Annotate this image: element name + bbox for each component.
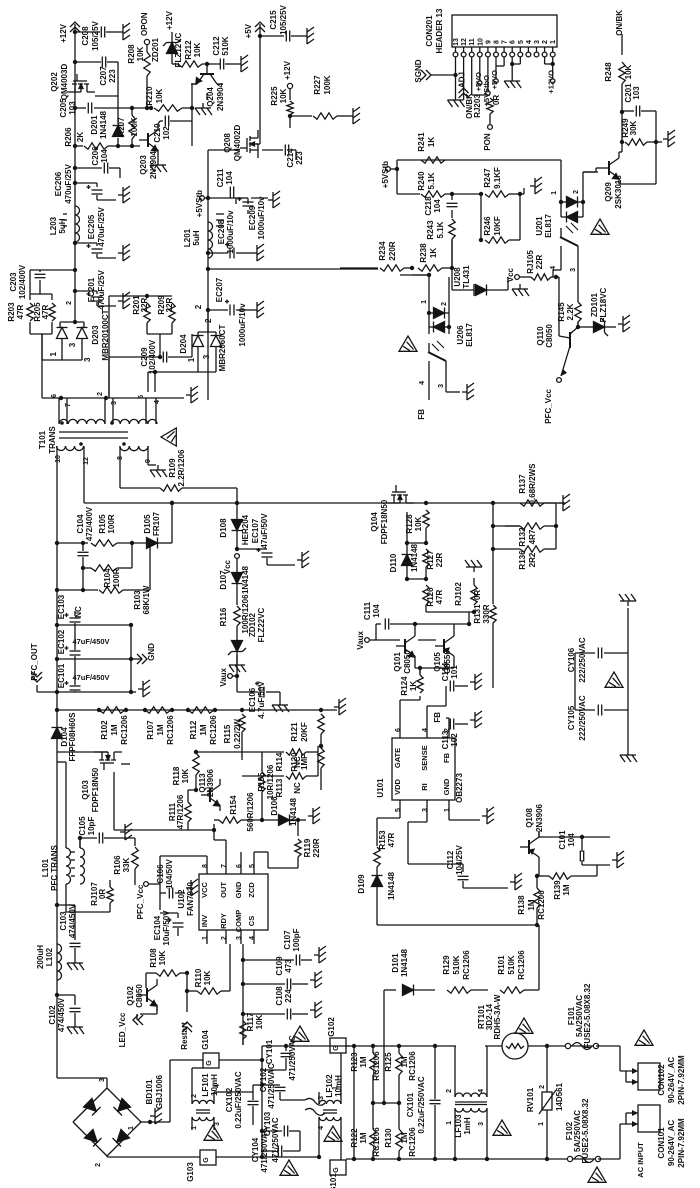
svg-text:7: 7 [502, 40, 509, 44]
svg-text:1M: 1M [562, 884, 571, 895]
svg-text:EC208: EC208 [217, 219, 226, 244]
svg-text:C108: C108 [275, 986, 284, 1006]
svg-text:D101: D101 [391, 953, 400, 973]
svg-text:R132: R132 [518, 527, 527, 547]
svg-text:68K/1W: 68K/1W [142, 585, 151, 614]
svg-text:R124: R124 [400, 676, 409, 696]
svg-text:R123: R123 [350, 1052, 359, 1072]
svg-text:NC: NC [293, 782, 302, 794]
svg-text:2: 2 [221, 936, 228, 940]
svg-text:+12V: +12V [283, 60, 292, 80]
svg-text:1: 1 [191, 1126, 198, 1130]
svg-text:GND: GND [147, 643, 156, 661]
svg-text:C102: C102 [48, 1005, 57, 1025]
svg-text:D203: D203 [91, 325, 100, 345]
svg-text:C218: C218 [424, 196, 433, 216]
svg-text:3: 3 [438, 384, 445, 388]
svg-text:C211: C211 [216, 168, 225, 187]
svg-text:1: 1 [202, 936, 209, 940]
svg-text:RC1206: RC1206 [372, 1051, 381, 1081]
svg-text:R153: R153 [378, 830, 387, 850]
svg-text:510K: 510K [452, 955, 461, 974]
svg-text:3: 3 [570, 268, 577, 272]
svg-text:8: 8 [202, 864, 209, 868]
svg-text:10K: 10K [203, 970, 212, 985]
svg-text:C114: C114 [441, 662, 450, 681]
svg-text:2K: 2K [76, 132, 85, 142]
svg-text:LF101: LF101 [201, 1073, 210, 1097]
svg-text:R115: R115 [223, 724, 232, 743]
svg-text:R129: R129 [442, 955, 451, 975]
svg-text:47R/1206: 47R/1206 [176, 794, 185, 829]
svg-text:R125: R125 [384, 1052, 393, 1072]
svg-text:10K: 10K [158, 950, 167, 965]
svg-text:10: 10 [477, 38, 484, 46]
svg-text:10K: 10K [136, 46, 145, 61]
svg-text:HER204: HER204 [241, 514, 250, 545]
svg-text:0R: 0R [492, 95, 501, 105]
svg-text:1mH: 1mH [463, 1117, 472, 1135]
svg-text:3: 3 [422, 808, 429, 812]
svg-text:3: 3 [202, 354, 211, 359]
svg-text:10: 10 [55, 455, 62, 463]
svg-text:101: 101 [450, 665, 459, 679]
svg-text:R203: R203 [7, 302, 16, 322]
svg-text:RDH5-3A-W: RDH5-3A-W [493, 994, 502, 1039]
svg-text:RDY: RDY [219, 913, 228, 929]
svg-text:T101: T101 [38, 430, 47, 449]
svg-text:47uF/50V: 47uF/50V [260, 513, 269, 549]
svg-text:22R: 22R [535, 254, 544, 269]
svg-text:10K: 10K [181, 768, 190, 783]
svg-text:220R: 220R [388, 241, 397, 260]
svg-text:C203: C203 [9, 272, 18, 292]
svg-text:1: 1 [128, 1126, 135, 1130]
svg-text:2SK3018: 2SK3018 [614, 175, 623, 209]
svg-text:470uF/25V: 470uF/25V [97, 207, 106, 247]
svg-text:471/250VAC: 471/250VAC [260, 1127, 269, 1172]
svg-text:D110: D110 [389, 553, 398, 572]
svg-text:EC101: EC101 [57, 663, 66, 688]
svg-text:R155: R155 [257, 772, 266, 792]
svg-text:R102: R102 [100, 720, 109, 740]
svg-text:D106: D106 [270, 796, 279, 816]
svg-text:8: 8 [494, 40, 501, 44]
svg-text:1: 1 [49, 351, 58, 356]
svg-text:SGND: SGND [414, 59, 423, 82]
svg-text:1: 1 [446, 1121, 453, 1125]
svg-text:CY104: CY104 [251, 1137, 260, 1162]
svg-text:3: 3 [99, 1078, 106, 1082]
svg-text:5.1K: 5.1K [436, 221, 445, 238]
svg-text:2R2: 2R2 [528, 552, 537, 567]
svg-text:FFPF08H60S: FFPF08H60S [68, 712, 77, 762]
svg-text:30K: 30K [629, 120, 638, 135]
svg-text:RC1206: RC1206 [408, 1051, 417, 1081]
svg-text:6: 6 [395, 728, 402, 732]
svg-text:D204: D204 [179, 334, 188, 354]
svg-text:560R/1206: 560R/1206 [246, 792, 255, 832]
svg-text:R154: R154 [229, 795, 238, 815]
svg-text:AC INPUT: AC INPUT [636, 1142, 645, 1178]
svg-text:22R: 22R [165, 297, 174, 312]
svg-text:VDD: VDD [393, 779, 402, 795]
svg-text:C111: C111 [363, 601, 372, 620]
svg-text:470uF/25V: 470uF/25V [97, 270, 106, 310]
svg-text:1: 1 [538, 1122, 545, 1126]
svg-text:LF103: LF103 [454, 1114, 463, 1138]
svg-text:224: 224 [284, 989, 293, 1003]
svg-text:474/450V: 474/450V [68, 903, 77, 938]
svg-text:C109: C109 [275, 956, 284, 976]
svg-text:1K: 1K [429, 248, 438, 258]
svg-text:EC206: EC206 [54, 171, 63, 196]
svg-text:L201: L201 [183, 228, 192, 247]
svg-text:HEADER 13: HEADER 13 [435, 8, 444, 53]
svg-text:FAN7930: FAN7930 [186, 882, 195, 916]
svg-text:4: 4 [422, 728, 429, 732]
svg-text:102: 102 [162, 126, 171, 140]
svg-text:4: 4 [526, 40, 533, 44]
svg-text:Q202: Q202 [50, 72, 59, 92]
svg-text:2: 2 [446, 1089, 453, 1093]
svg-text:4.7uF/50V: 4.7uF/50V [257, 681, 266, 719]
svg-text:R117: R117 [246, 1012, 255, 1031]
svg-text:47R: 47R [435, 589, 444, 604]
svg-text:1M: 1M [359, 1056, 368, 1067]
svg-text:Vcc: Vcc [506, 267, 515, 282]
svg-text:R145: R145 [557, 302, 566, 322]
svg-text:0.22uF/250VAC: 0.22uF/250VAC [234, 1071, 243, 1128]
svg-text:L203: L203 [49, 216, 58, 235]
svg-text:U102: U102 [177, 889, 186, 909]
svg-text:R238: R238 [419, 243, 428, 263]
svg-text:C8050: C8050 [403, 650, 412, 674]
svg-text:R130: R130 [384, 1128, 393, 1148]
svg-text:G: G [333, 1167, 340, 1173]
svg-text:Restart: Restart [180, 1022, 189, 1050]
svg-text:TRANS: TRANS [48, 426, 57, 454]
svg-text:3: 3 [534, 40, 541, 44]
svg-text:OB2273: OB2273 [455, 773, 464, 803]
svg-text:EL817: EL817 [465, 323, 474, 347]
svg-text:Vaux: Vaux [219, 667, 228, 686]
svg-text:G: G [206, 1060, 213, 1066]
svg-text:100pF: 100pF [292, 928, 301, 951]
svg-text:+5VO: +5VO [490, 70, 499, 90]
svg-text:22R: 22R [435, 552, 444, 567]
svg-text:ZD201: ZD201 [151, 37, 160, 62]
svg-text:0.22uF/250VAC: 0.22uF/250VAC [417, 1076, 426, 1133]
svg-text:CX101: CX101 [406, 1092, 415, 1117]
svg-text:3: 3 [478, 1122, 485, 1126]
svg-text:U101: U101 [376, 778, 385, 798]
svg-text:RC1206: RC1206 [462, 950, 471, 980]
svg-text:1: 1 [551, 191, 558, 195]
svg-text:C8050: C8050 [135, 984, 144, 1008]
svg-text:R227: R227 [313, 75, 322, 95]
svg-text:473: 473 [284, 959, 293, 973]
svg-text:RC1206: RC1206 [372, 1127, 381, 1157]
svg-text:C206: C206 [91, 146, 100, 166]
svg-text:90-264V_AC: 90-264V_AC [667, 1057, 676, 1103]
svg-text:2: 2 [194, 304, 203, 309]
svg-text:GND: GND [234, 881, 243, 898]
svg-text:RC1206: RC1206 [537, 890, 546, 920]
svg-text:47uF/450V: 47uF/450V [72, 637, 109, 646]
svg-text:C210: C210 [153, 123, 162, 143]
svg-text:4: 4 [318, 1126, 325, 1130]
svg-text:10K: 10K [255, 1014, 264, 1029]
svg-text:+12V: +12V [59, 23, 68, 43]
svg-text:5: 5 [249, 864, 256, 868]
svg-text:10R/1206: 10R/1206 [266, 764, 275, 799]
svg-text:LF102: LF102 [325, 1074, 334, 1098]
svg-text:1M: 1M [359, 1132, 368, 1143]
svg-text:C214: C214 [286, 148, 295, 168]
svg-text:0R: 0R [473, 590, 482, 600]
svg-text:FDPF18N50: FDPF18N50 [91, 767, 100, 812]
svg-text:100K: 100K [323, 75, 332, 94]
svg-text:12: 12 [461, 38, 468, 46]
svg-text:R234: R234 [378, 241, 387, 261]
svg-text:1N4148: 1N4148 [410, 543, 419, 572]
svg-text:QM4002D: QM4002D [233, 125, 242, 162]
svg-text:6: 6 [510, 40, 517, 44]
svg-text:R105: R105 [98, 514, 107, 534]
svg-text:ON/BK: ON/BK [615, 10, 624, 36]
svg-text:G: G [203, 1157, 210, 1163]
svg-text:2.2R/1206: 2.2R/1206 [177, 449, 186, 486]
svg-text:472/400V: 472/400V [85, 506, 94, 541]
svg-text:R248: R248 [604, 62, 613, 82]
svg-text:1: 1 [187, 357, 196, 362]
svg-text:223: 223 [108, 69, 117, 83]
svg-text:100R: 100R [112, 568, 121, 587]
svg-text:105/25V: 105/25V [91, 20, 100, 50]
svg-text:EC107: EC107 [251, 518, 260, 543]
svg-text:FB: FB [417, 409, 426, 420]
svg-text:3: 3 [214, 1122, 221, 1126]
svg-text:3: 3 [68, 342, 77, 347]
svg-text:470uF/25V: 470uF/25V [64, 164, 73, 204]
svg-text:7: 7 [65, 403, 72, 407]
svg-text:GBJ1006: GBJ1006 [155, 1074, 164, 1109]
svg-text:6: 6 [51, 394, 58, 398]
svg-text:G102: G102 [327, 1017, 336, 1037]
svg-text:R136: R136 [518, 550, 527, 570]
svg-text:R103: R103 [133, 590, 142, 610]
svg-text:R107: R107 [146, 720, 155, 740]
svg-text:330R: 330R [482, 604, 491, 623]
svg-text:1N4148: 1N4148 [241, 565, 250, 594]
svg-text:2: 2 [66, 301, 73, 305]
svg-text:R113: R113 [275, 778, 284, 797]
svg-text:R108: R108 [149, 948, 158, 968]
svg-text:CS: CS [247, 916, 256, 926]
svg-text:D201: D201 [90, 115, 99, 135]
svg-text:1000uF/10v: 1000uF/10v [238, 303, 247, 347]
svg-text:11: 11 [469, 38, 476, 46]
svg-text:R109: R109 [168, 458, 177, 478]
svg-text:D109: D109 [357, 874, 366, 894]
svg-text:RC1206: RC1206 [166, 715, 175, 745]
svg-text:10K: 10K [155, 88, 164, 103]
svg-text:R127: R127 [426, 550, 435, 570]
svg-text:10K: 10K [279, 88, 288, 103]
svg-text:223: 223 [295, 151, 304, 165]
svg-text:510K: 510K [221, 36, 230, 55]
svg-text:RV101: RV101 [526, 1087, 535, 1112]
svg-text:222/250VAC: 222/250VAC [578, 695, 587, 740]
svg-text:R225: R225 [270, 86, 279, 106]
svg-text:1: 1 [332, 1086, 339, 1090]
svg-text:2: 2 [95, 1163, 102, 1167]
svg-text:FLZ12VC: FLZ12VC [174, 32, 183, 67]
svg-text:100R: 100R [107, 514, 116, 533]
svg-text:EC106: EC106 [248, 687, 257, 712]
svg-text:1K: 1K [409, 681, 418, 691]
svg-text:104/50V: 104/50V [165, 858, 174, 888]
svg-text:471/250VAC: 471/250VAC [288, 1035, 297, 1080]
svg-text:47R: 47R [16, 304, 25, 319]
svg-text:2: 2 [97, 392, 104, 396]
svg-text:4: 4 [419, 381, 426, 385]
svg-text:4R7: 4R7 [528, 529, 537, 544]
svg-text:NC: NC [293, 756, 302, 768]
svg-text:1: 1 [550, 40, 557, 44]
svg-text:Q110: Q110 [536, 326, 545, 346]
svg-text:R118: R118 [172, 766, 181, 785]
svg-text:RC1206: RC1206 [408, 1127, 417, 1157]
svg-text:R104: R104 [103, 568, 112, 588]
svg-text:2.2K: 2.2K [566, 303, 575, 320]
svg-text:D108: D108 [219, 518, 228, 538]
svg-text:Q203: Q203 [139, 155, 148, 175]
svg-text:CON101: CON101 [657, 1127, 666, 1159]
svg-text:R116: R116 [219, 607, 228, 626]
svg-text:Q208: Q208 [223, 133, 232, 153]
svg-text:1M: 1M [527, 899, 536, 910]
svg-text:6: 6 [236, 864, 243, 868]
svg-text:2N3904: 2N3904 [216, 82, 225, 111]
svg-text:EC209: EC209 [248, 205, 257, 230]
svg-text:EC201: EC201 [87, 277, 96, 302]
svg-text:22R: 22R [140, 297, 149, 312]
svg-text:3: 3 [236, 936, 243, 940]
svg-text:2: 2 [539, 1085, 546, 1089]
svg-text:10K: 10K [414, 516, 423, 531]
svg-text:47R: 47R [41, 304, 50, 319]
svg-text:102: 102 [450, 733, 459, 747]
svg-text:200uH: 200uH [36, 945, 45, 969]
svg-text:2N3906: 2N3906 [535, 803, 544, 832]
svg-text:5: 5 [518, 40, 525, 44]
svg-text:OUT: OUT [219, 882, 228, 898]
svg-text:104: 104 [567, 833, 576, 847]
svg-text:Q209: Q209 [604, 182, 613, 202]
svg-text:0R: 0R [98, 889, 107, 899]
svg-text:TL431: TL431 [462, 265, 471, 289]
svg-text:RC1206: RC1206 [120, 715, 129, 745]
svg-text:103: 103 [68, 101, 77, 115]
svg-text:1N4148: 1N4148 [99, 110, 108, 139]
svg-text:C212: C212 [212, 36, 221, 56]
svg-text:4: 4 [550, 266, 557, 270]
svg-text:EC104: EC104 [153, 915, 162, 940]
svg-text:Q103: Q103 [81, 780, 90, 800]
svg-text:13: 13 [453, 38, 460, 46]
svg-text:R243: R243 [426, 220, 435, 240]
svg-text:1000uF/10v: 1000uF/10v [226, 210, 235, 254]
svg-text:0.68R/2WS: 0.68R/2WS [528, 463, 537, 505]
svg-text:PFC_Vcc: PFC_Vcc [136, 884, 145, 919]
svg-text:RJ203: RJ203 [473, 94, 482, 118]
svg-text:C215: C215 [269, 10, 278, 30]
svg-text:C105: C105 [78, 816, 87, 836]
svg-text:3: 3 [318, 1096, 325, 1100]
svg-text:CY101: CY101 [265, 1039, 274, 1064]
svg-text:2: 2 [191, 1094, 198, 1098]
svg-text:+12VO: +12VO [547, 70, 556, 94]
svg-text:9: 9 [485, 40, 492, 44]
svg-text:4: 4 [154, 400, 161, 404]
svg-text:D105: D105 [143, 514, 152, 534]
svg-text:QM4003D: QM4003D [60, 64, 69, 101]
svg-text:R121: R121 [290, 722, 299, 742]
svg-text:EC207: EC207 [215, 277, 224, 302]
svg-text:R206: R206 [64, 127, 73, 147]
svg-text:1K: 1K [427, 137, 436, 147]
svg-text:PFC TRANS: PFC TRANS [50, 844, 59, 890]
svg-text:Q102: Q102 [126, 986, 135, 1006]
svg-text:CON102: CON102 [657, 1064, 666, 1096]
svg-text:C112: C112 [446, 850, 455, 869]
svg-text:5: 5 [395, 808, 402, 812]
svg-text:LED_Vcc: LED_Vcc [118, 1012, 127, 1047]
svg-text:R241: R241 [417, 132, 426, 152]
svg-text:1N4148: 1N4148 [387, 871, 396, 900]
svg-text:FLZ18VC: FLZ18VC [599, 287, 608, 322]
svg-text:R122: R122 [350, 1128, 359, 1148]
svg-text:GND: GND [442, 778, 451, 795]
svg-text:C8050: C8050 [545, 324, 554, 348]
svg-text:104: 104 [372, 604, 381, 618]
svg-text:R110: R110 [194, 968, 203, 987]
svg-text:FB: FB [433, 712, 442, 723]
svg-text:C208: C208 [81, 26, 90, 46]
svg-text:3: 3 [83, 357, 92, 362]
svg-text:G103: G103 [186, 1162, 195, 1182]
svg-text:U201: U201 [535, 216, 544, 236]
svg-text:90-264V_AC: 90-264V_AC [667, 1120, 676, 1166]
svg-text:RI: RI [420, 783, 429, 791]
svg-text:1M: 1M [110, 724, 119, 735]
svg-text:4: 4 [214, 1084, 221, 1088]
svg-text:20KF: 20KF [300, 722, 309, 742]
svg-text:INV: INV [200, 915, 209, 928]
svg-text:1M: 1M [199, 724, 208, 735]
svg-text:100K: 100K [130, 117, 139, 136]
svg-text:SENSE: SENSE [420, 745, 429, 770]
svg-text:C113: C113 [441, 730, 450, 749]
svg-text:3: 3 [111, 401, 118, 405]
svg-text:104: 104 [433, 199, 442, 213]
svg-text:1M: 1M [156, 724, 165, 735]
svg-text:CON201: CON201 [425, 15, 434, 47]
svg-text:R101: R101 [497, 955, 506, 975]
svg-text:C101: C101 [558, 830, 567, 850]
